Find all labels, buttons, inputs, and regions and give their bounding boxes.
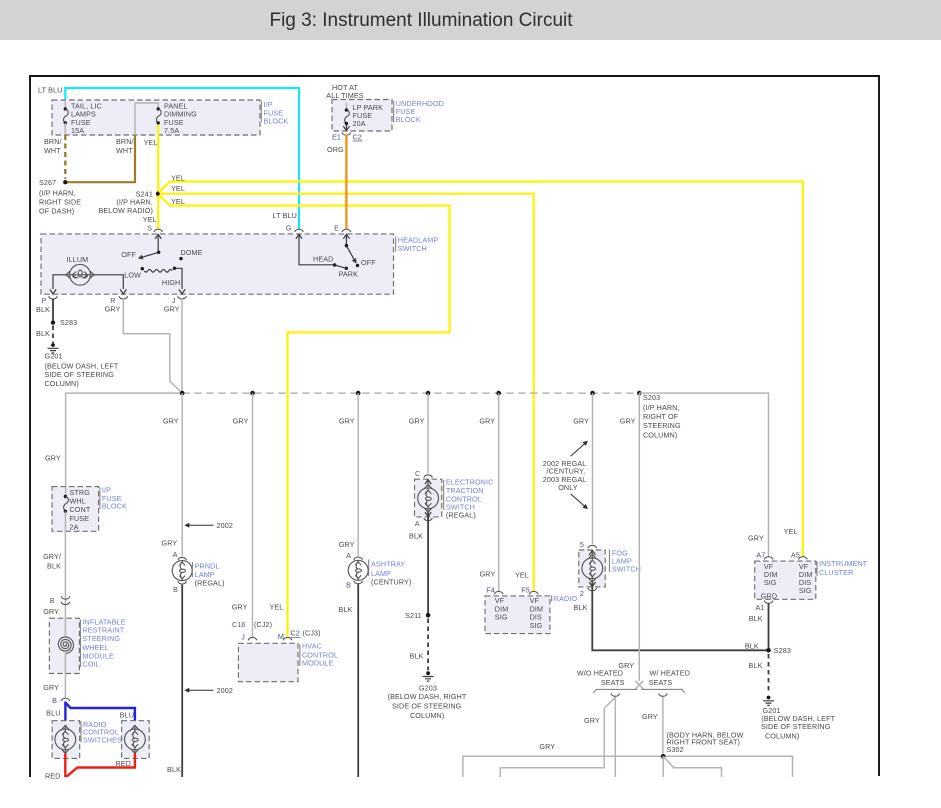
wire GRY S302 right diagonal branch [663, 756, 721, 777]
svg-text:B: B [173, 585, 178, 594]
wire GRY S302 bus [463, 756, 793, 777]
svg-text:GRY: GRY [105, 305, 121, 314]
wire GRY W/O heated seats (diagonal branch) [500, 697, 615, 777]
splice S241 [156, 191, 161, 196]
wire BLK from PRNDL B to bottom [181, 585, 183, 777]
svg-text:GRY: GRY [339, 540, 355, 549]
wire GRY from J to illumination bus [181, 299, 183, 393]
wire YEL branch 3 from S241 to HVAC control module M [159, 195, 450, 637]
svg-text:SIG: SIG [530, 621, 543, 630]
terminal A of traction control switch [424, 518, 433, 521]
wire through coil [64, 618, 66, 673]
HVAC control module box [238, 643, 298, 681]
svg-text:ORG: ORG [327, 145, 344, 154]
wire BLK from traction A to S211 [427, 512, 429, 615]
I/P fuse block (STRG) label tick [99, 488, 101, 510]
svg-text:COIL: COIL [82, 660, 99, 669]
svg-text:GRD: GRD [761, 591, 777, 600]
svg-text:S283: S283 [60, 318, 77, 327]
svg-text:F4: F4 [486, 585, 495, 594]
fuse PANEL DIMMING 7.5A [135, 101, 197, 135]
fog lamp switch box [579, 550, 605, 587]
svg-text:S203: S203 [643, 393, 660, 402]
svg-text:GRY: GRY [163, 417, 179, 426]
wire BLK dashed from S283 to G201 [768, 654, 770, 694]
svg-text:(CJ2): (CJ2) [254, 620, 272, 629]
underhood fuse block label tick [393, 101, 395, 123]
svg-text:YEL: YEL [784, 527, 798, 536]
terminal A7 of instrument cluster [764, 557, 773, 560]
wire GRY bus to PRNDL lamp A [181, 393, 183, 555]
node HIGH contact [173, 267, 176, 270]
wire GRY bus to HVAC J [252, 393, 254, 637]
svg-text:B: B [52, 696, 57, 705]
radio pin F5 function label [530, 596, 544, 630]
terminal 2 of fog lamp switch [588, 588, 597, 591]
wire RED from right switch joining left [67, 753, 135, 776]
node LOW contact [141, 267, 144, 270]
node bus junction HVAC [250, 391, 255, 396]
underhood fuse block box [332, 100, 392, 132]
wire ORG from underhood fuse block to headlamp switch E [345, 135, 347, 229]
splice S203 [637, 391, 642, 396]
terminal P of headlamp switch [50, 289, 56, 294]
inflatable restraint steering wheel module coil box [49, 618, 79, 673]
svg-text:2002: 2002 [217, 686, 233, 695]
svg-text:A7: A7 [756, 551, 765, 560]
wire GRY from R to illumination bus [123, 299, 182, 393]
wire BLK from P to S283 [52, 299, 54, 323]
svg-text:P: P [42, 296, 47, 305]
node bus junction radio [496, 391, 501, 396]
resistor dimmer rheostat LOW-HIGH [144, 269, 172, 272]
svg-text:C16: C16 [232, 620, 246, 629]
svg-text:SEATS: SEATS [649, 678, 673, 687]
fog lamp switch label tick [608, 550, 610, 573]
svg-text:SIG: SIG [799, 586, 812, 595]
wire GRY/BLK from STRG fuse to connector B [64, 531, 66, 618]
svg-text:YEL: YEL [515, 571, 529, 580]
svg-text:GRY/: GRY/ [43, 552, 61, 561]
terminal A5 of instrument cluster [799, 557, 808, 560]
electronic traction control switch box [415, 479, 442, 517]
lamp fog lamp switch [582, 554, 603, 582]
pin exit arrow inside underhood fuse block [345, 125, 347, 130]
terminal A of ashtray lamp [354, 557, 363, 560]
terminal R of headlamp switch [120, 289, 126, 294]
terminal A1 of instrument cluster [764, 601, 773, 604]
connector terminal W/ heated seats [659, 694, 668, 697]
svg-text:RIGHT OF: RIGHT OF [643, 412, 679, 421]
svg-text:WHT: WHT [44, 146, 61, 155]
svg-text:ASHTRAY: ASHTRAY [371, 560, 405, 569]
svg-text:GRY: GRY [748, 534, 764, 543]
terminal S of headlamp switch [154, 229, 163, 232]
svg-text:2: 2 [580, 589, 584, 598]
wire GRY from S203 to instrument cluster A7 [639, 393, 768, 556]
underhood fuse block label [396, 99, 444, 124]
radio pin F4 function label [495, 596, 509, 622]
svg-text:YEL: YEL [171, 197, 185, 206]
svg-text:GRY: GRY [409, 417, 425, 426]
wire BLK from A1 to S283 [768, 604, 770, 651]
terminal C of traction control switch [424, 475, 433, 478]
svg-text:G: G [286, 224, 292, 233]
svg-text:OFF: OFF [361, 258, 376, 267]
svg-text:GRY: GRY [161, 539, 177, 548]
svg-text:S: S [147, 223, 152, 232]
wire GRY bus to ashtray lamp A [357, 393, 359, 556]
radio control switch (left) box [52, 721, 80, 759]
svg-text:YEL: YEL [171, 173, 185, 182]
lamp ASHTRAY [348, 560, 368, 580]
svg-text:ALL TIMES: ALL TIMES [326, 91, 364, 100]
headlamp switch HEAD feed from G [299, 235, 334, 265]
svg-text:BLK: BLK [749, 661, 763, 670]
note arrow to fog wire (lower) [571, 494, 586, 507]
wire BLK dashed S211 to G203 [427, 619, 429, 671]
svg-text:SIDE OF STEERING: SIDE OF STEERING [45, 370, 115, 379]
connector terminal W/O heated seats [611, 694, 620, 697]
wire GRY from S203 down to heated-seats option split [638, 393, 640, 681]
svg-text:COLUMN): COLUMN) [410, 711, 444, 720]
wire ILLUM right to terminal R [94, 275, 123, 289]
svg-text:YEL: YEL [171, 184, 185, 193]
terminal E of headlamp switch [342, 229, 351, 232]
wire RED from left switch to bottom [64, 753, 66, 777]
node bus junction traction switch [426, 391, 431, 396]
cluster pin A7 function label [764, 562, 778, 587]
wire GRY bus to traction switch C [427, 393, 429, 473]
terminal J of headlamp switch [179, 289, 185, 294]
wire BLK dashed from S283 to G201 [52, 326, 54, 344]
svg-text:YEL: YEL [144, 138, 158, 147]
svg-text:CONT: CONT [70, 505, 91, 514]
svg-text:MODULE: MODULE [302, 659, 334, 668]
wire BLU from B to radio control switches [65, 702, 134, 726]
switch contact arm HEAD-PARK [335, 265, 347, 268]
svg-text:BLK: BLK [339, 605, 353, 614]
title bar [0, 0, 941, 40]
svg-text:S283: S283 [774, 646, 791, 655]
svg-text:B: B [346, 581, 351, 590]
svg-text:BLK: BLK [409, 531, 423, 540]
connector terminal B (radio control switches) [61, 698, 70, 701]
wire GRY bus solid left segment to STRG fuse [66, 393, 183, 487]
svg-text:S267: S267 [39, 178, 56, 187]
radio label tick [551, 596, 553, 602]
svg-text:BLK: BLK [410, 652, 424, 661]
ashtray lamp label tick [368, 560, 370, 577]
svg-text:GRY: GRY [233, 417, 249, 426]
svg-text:SWITCH: SWITCH [612, 565, 641, 574]
svg-text:HIGH: HIGH [162, 278, 180, 287]
svg-text:BLK: BLK [36, 305, 50, 314]
splice S211 [426, 613, 431, 618]
node bus junction fog lamp switch [590, 391, 595, 396]
svg-text:BLK: BLK [574, 603, 588, 612]
splice S267 [63, 180, 67, 184]
svg-text:GRY: GRY [573, 417, 589, 426]
headlamp switch label [398, 236, 439, 254]
svg-text:RADIO: RADIO [554, 594, 578, 603]
fuse STRG WHL CONT 2A [64, 487, 91, 532]
wire GRY illumination bus (dashed) [182, 392, 639, 394]
svg-text:A1: A1 [755, 603, 764, 612]
node HOT AT ALL TIMES [326, 83, 364, 100]
svg-text:S211: S211 [405, 611, 422, 620]
wire YEL branch 2 from S241 to radio F5 [160, 194, 534, 592]
I/P fuse block (STRG) box [52, 487, 99, 532]
lamp PRNDL [172, 561, 192, 581]
terminal G of headlamp switch [295, 229, 304, 232]
svg-text:(CJ3): (CJ3) [303, 629, 321, 638]
I/P fuse block (top) box [52, 100, 260, 135]
svg-text:GRY: GRY [43, 607, 59, 616]
svg-text:7.5A: 7.5A [164, 126, 179, 135]
ground G201 (left) [48, 343, 59, 353]
svg-text:(I/P HARN,: (I/P HARN, [643, 403, 680, 412]
svg-text:E: E [334, 224, 339, 233]
svg-text:GRY: GRY [43, 683, 59, 692]
svg-text:INSTRUMENT: INSTRUMENT [819, 559, 868, 568]
connector terminal E1/C2 under underhood fuse block [342, 132, 351, 135]
instrument cluster box [755, 561, 816, 599]
wire GRY bus to fog lamp switch 5 [592, 393, 594, 544]
svg-text:HVAC: HVAC [302, 642, 322, 651]
note arrow 2002 (lower) [184, 688, 189, 693]
ground G201 (right) [763, 696, 774, 706]
svg-text:BLU: BLU [120, 711, 134, 720]
svg-text:(CENTURY): (CENTURY) [371, 577, 411, 586]
radio control switch (right) box [122, 721, 150, 759]
svg-text:BRN/: BRN/ [116, 137, 134, 146]
headlamp switch box [41, 234, 394, 294]
svg-text:F5: F5 [521, 585, 530, 594]
wire BLK from ashtray B to bottom [357, 584, 359, 777]
svg-text:PARK: PARK [339, 270, 359, 279]
svg-text:R: R [110, 296, 115, 305]
terminal M of HVAC control module [283, 637, 292, 640]
node bus junction ashtray [356, 391, 361, 396]
svg-text:(REGAL): (REGAL) [195, 579, 225, 588]
svg-text:GRY: GRY [642, 712, 658, 721]
splice S283 (right) [766, 648, 771, 653]
svg-text:Fig 3: Instrument Illumination: Fig 3: Instrument Illumination Circuit [269, 10, 573, 31]
wire GRY bus to radio F4 [498, 393, 500, 592]
svg-text:HEAD: HEAD [313, 255, 333, 264]
svg-text:GRY: GRY [539, 742, 555, 751]
node HEAD contact [333, 263, 336, 266]
svg-text:LT BLU: LT BLU [273, 211, 297, 220]
svg-text:SWITCH: SWITCH [398, 244, 427, 253]
svg-text:(REGAL): (REGAL) [446, 511, 476, 520]
wire YEL branch 1 from S241 to instrument cluster A5 [159, 182, 803, 558]
svg-text:S302: S302 [667, 745, 684, 754]
ashtray lamp label [371, 560, 405, 578]
svg-text:SIDE OF STEERING: SIDE OF STEERING [392, 702, 462, 711]
note arrow 2002 (upper) [184, 523, 189, 528]
svg-text:SWITCHES: SWITCHES [83, 735, 122, 744]
terminal B of ashtray lamp [354, 581, 363, 584]
wire GRY S302 drop [662, 756, 664, 777]
note arrow to fog wire (upper) [571, 443, 586, 456]
svg-text:BLOCK: BLOCK [102, 502, 127, 511]
headlamp switch dimmer arm from S [140, 235, 159, 259]
radio control switches label tick [80, 722, 82, 743]
fog lamp switch label [612, 548, 641, 573]
svg-text:2A: 2A [70, 522, 79, 531]
fuse TAIL,LIC LAMPS 15A [64, 100, 102, 135]
wire HIGH contact to terminal J [175, 268, 183, 289]
HVAC control module label [302, 642, 338, 668]
svg-text:GRY: GRY [584, 716, 600, 725]
svg-text:GRY: GRY [164, 305, 180, 314]
svg-text:STEERING: STEERING [643, 421, 681, 430]
svg-text:J: J [241, 633, 245, 642]
inflatable restraint label tick [79, 620, 81, 668]
svg-text:BRN/: BRN/ [44, 137, 62, 146]
svg-text:OF DASH): OF DASH) [39, 207, 74, 216]
PRNDL lamp label tick [191, 562, 193, 577]
electronic traction control switch label [446, 478, 494, 512]
svg-text:RED: RED [115, 759, 131, 768]
svg-text:SIG: SIG [764, 578, 777, 587]
in-line connector B (steering coil) [61, 596, 70, 599]
svg-text:SIDE OF STEERING: SIDE OF STEERING [761, 722, 831, 731]
node bus junction J-wire [180, 391, 185, 396]
svg-text:E1: E1 [332, 132, 341, 141]
wire GRY W/O heated seats (straight branch) [614, 697, 616, 777]
lamp radio control switch left [55, 725, 76, 753]
svg-text:ILLUM: ILLUM [67, 255, 89, 264]
svg-text:OFF: OFF [121, 250, 136, 259]
svg-text:BLK: BLK [36, 329, 50, 338]
svg-text:20A: 20A [353, 119, 366, 128]
headlamp switch arm from E [346, 235, 355, 263]
I/P fuse block label [264, 100, 289, 126]
lamp electronic traction control switch [418, 484, 439, 512]
svg-text:GRY: GRY [232, 602, 248, 611]
option bracket W/ HEATED SEATS [641, 689, 685, 693]
svg-text:C2: C2 [353, 132, 362, 141]
coil spiral (clockspring) [58, 637, 73, 653]
svg-text:LOW: LOW [124, 270, 141, 279]
wire BLK from fog 2 to S283 [592, 582, 766, 650]
node OFF (park) contact [356, 264, 359, 267]
splice S302 [661, 754, 666, 759]
option bracket W/O HEATED SEATS [593, 689, 637, 693]
radio control switches label [83, 720, 122, 745]
I/P fuse block (STRG) label [102, 486, 127, 511]
svg-text:(BELOW DASH, RIGHT: (BELOW DASH, RIGHT [388, 692, 467, 701]
traction switch label tick [443, 480, 445, 510]
wire GRY W/ heated seats to S302 [662, 697, 664, 756]
svg-text:YEL: YEL [269, 602, 283, 611]
headlamp switch label tick [395, 237, 397, 252]
svg-text:ONLY: ONLY [558, 483, 578, 492]
cluster pin A5 function label [799, 562, 813, 595]
svg-text:W/ HEATED: W/ HEATED [650, 669, 690, 678]
svg-text:STEERING: STEERING [82, 634, 120, 643]
svg-text:G201: G201 [45, 351, 63, 360]
svg-text:RIGHT SIDE: RIGHT SIDE [39, 198, 81, 207]
svg-text:BLK: BLK [167, 765, 181, 774]
HVAC control module label tick [299, 644, 301, 666]
node DOME contact [179, 257, 182, 260]
splice S283 [51, 320, 55, 324]
wire GRY bus labels [163, 417, 636, 426]
svg-text:(I/P HARN,: (I/P HARN, [39, 189, 76, 198]
svg-text:A: A [346, 551, 351, 560]
svg-text:LT BLU: LT BLU [38, 86, 62, 95]
svg-text:SEATS: SEATS [601, 678, 625, 687]
svg-text:A: A [173, 550, 178, 559]
fuse LP PARK 20A [345, 103, 384, 128]
svg-text:GRY: GRY [479, 417, 495, 426]
terminal 5 of fog lamp switch [588, 545, 597, 548]
svg-text:COLUMN): COLUMN) [643, 431, 677, 440]
terminal A of PRNDL lamp [178, 557, 187, 560]
svg-text:GRY: GRY [45, 454, 61, 463]
svg-text:2002: 2002 [217, 521, 233, 530]
svg-text:DOME: DOME [181, 248, 203, 257]
svg-text:J: J [172, 296, 176, 305]
svg-text:GRY: GRY [480, 569, 496, 578]
svg-text:BLOCK: BLOCK [264, 117, 289, 126]
wire BRN/WHT solid from S267 to PANEL DIMMING fuse [67, 135, 135, 182]
svg-text:SIG: SIG [495, 613, 508, 622]
PRNDL lamp label [195, 562, 220, 580]
svg-text:BELOW RADIO): BELOW RADIO) [98, 206, 153, 215]
svg-text:5: 5 [580, 540, 584, 549]
svg-text:GRY: GRY [620, 417, 636, 426]
svg-text:15A: 15A [71, 126, 84, 135]
svg-text:C2: C2 [291, 629, 300, 638]
wire YEL from PANEL DIMMING fuse to S241 [157, 125, 159, 229]
ground G203 [423, 671, 434, 681]
svg-text:WHT: WHT [116, 146, 133, 155]
svg-text:GRY: GRY [339, 417, 355, 426]
terminal F4 of radio [494, 591, 503, 594]
svg-text:A: A [415, 519, 420, 528]
svg-text:BLK: BLK [47, 561, 61, 570]
node PARK contact [345, 267, 348, 270]
lamp radio control switch right [124, 725, 145, 753]
I/P fuse block label tick [260, 101, 262, 122]
terminal F5 of radio [529, 591, 538, 594]
note 2002 REGAL/CENTURY 2003 REGAL ONLY [543, 459, 587, 492]
wire GRY below coil to connector B2 [64, 674, 66, 698]
svg-text:COLUMN): COLUMN) [765, 731, 799, 740]
svg-text:BLK: BLK [749, 614, 763, 623]
svg-text:RED: RED [45, 771, 61, 780]
svg-text:BLOCK: BLOCK [396, 115, 421, 124]
svg-text:COLUMN): COLUMN) [45, 379, 79, 388]
option split X [635, 681, 643, 690]
svg-text:BLK: BLK [745, 642, 759, 651]
terminal J of HVAC control module [248, 637, 257, 640]
wire BRN/WHT dashed from TAIL fuse to S267 [64, 135, 66, 179]
svg-text:B: B [50, 596, 55, 605]
svg-text:W/O HEATED: W/O HEATED [577, 669, 623, 678]
wire LT BLU (cyan) from I/P fuse block to headlamp switch terminal G [65, 88, 299, 229]
svg-text:CLUSTER: CLUSTER [819, 568, 853, 577]
drawing frame [30, 76, 879, 777]
terminal B of PRNDL lamp [178, 581, 187, 584]
wire ILLUM left to terminal P [53, 275, 66, 289]
svg-text:C: C [415, 469, 420, 478]
